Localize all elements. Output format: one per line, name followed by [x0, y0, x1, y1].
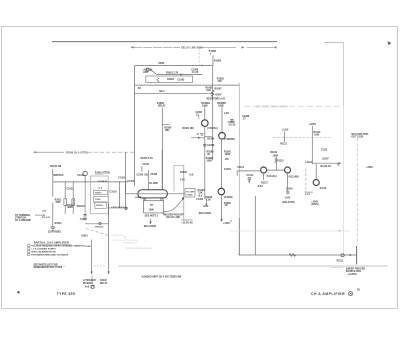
svg-text:C1050: C1050 — [127, 181, 134, 183]
svg-text:RESISTORS A+B: RESISTORS A+B — [207, 98, 226, 101]
svg-text:DELAY: DELAY — [158, 105, 166, 108]
svg-text:C1051: C1051 — [143, 164, 150, 166]
svg-text:C1090: C1090 — [150, 173, 158, 176]
svg-text:R1084 18K: R1084 18K — [182, 127, 194, 130]
svg-text:820K: 820K — [159, 62, 165, 65]
svg-text:V1119: V1119 — [320, 187, 327, 190]
svg-text:CHECKED: CHECKED — [112, 240, 122, 242]
svg-text:C1116: C1116 — [286, 188, 293, 191]
svg-text:13K: 13K — [198, 192, 203, 195]
svg-text:C1091: C1091 — [224, 168, 232, 171]
svg-text:18K: 18K — [165, 129, 170, 132]
svg-text:100K: 100K — [273, 154, 279, 157]
svg-text:C1021: C1021 — [118, 178, 125, 180]
svg-text:R1113: R1113 — [277, 160, 284, 163]
svg-text:SCANNED TEK: SCANNED TEK — [123, 242, 138, 245]
svg-text:-8.6V: -8.6V — [257, 185, 263, 188]
svg-text:1.5K: 1.5K — [224, 113, 229, 115]
svg-text:470K: 470K — [55, 201, 61, 204]
svg-text:R1109: R1109 — [270, 151, 278, 154]
svg-text:(DCPL): (DCPL) — [311, 204, 319, 206]
svg-text:SW1010: SW1010 — [95, 226, 104, 228]
svg-text:L1110: L1110 — [282, 128, 289, 131]
svg-text:680K: 680K — [67, 206, 73, 209]
svg-text:+12.6V AC: +12.6V AC — [181, 221, 193, 224]
svg-text:+100V: +100V — [215, 94, 222, 97]
svg-text:-8.6V: -8.6V — [285, 196, 291, 199]
svg-text:1K: 1K — [225, 204, 228, 207]
svg-text:R1010 1M: R1010 1M — [50, 165, 61, 168]
svg-text:GANGED WITH CH A VOLTS/DIV SW: GANGED WITH CH A VOLTS/DIV SW — [142, 276, 182, 279]
svg-text:+1.2: +1.2 — [98, 187, 103, 189]
svg-text:A+B: A+B — [85, 286, 90, 289]
svg-text:SEMICONDUCTOR TYPES: SEMICONDUCTOR TYPES — [34, 267, 63, 269]
svg-text:C1010: C1010 — [77, 174, 85, 177]
svg-text:A TRIGGER: A TRIGGER — [83, 279, 96, 282]
svg-text:R1088: R1088 — [207, 138, 215, 141]
svg-text:SEE SWEEP GEN DIAGRAM: SEE SWEEP GEN DIAGRAM — [256, 105, 288, 108]
svg-text:+0.6: +0.6 — [189, 175, 194, 177]
svg-text:C1113: C1113 — [321, 149, 328, 151]
svg-text:R1121: R1121 — [337, 260, 344, 262]
svg-text:C1019: C1019 — [110, 190, 118, 193]
svg-text:+150V: +150V — [366, 166, 373, 169]
svg-text:DL1090: DL1090 — [149, 182, 158, 185]
svg-text:CH A AMPLIFIER: CH A AMPLIFIER — [311, 292, 345, 296]
svg-text:100K: 100K — [85, 246, 91, 248]
svg-text:C1088: C1088 — [207, 144, 215, 147]
svg-text:C1050 .001: C1050 .001 — [136, 174, 149, 176]
svg-text:AC: AC — [60, 174, 64, 177]
svg-text:L1119: L1119 — [305, 161, 312, 164]
svg-text:4.5-25: 4.5-25 — [228, 124, 235, 127]
svg-text:V1090: V1090 — [186, 194, 193, 196]
svg-text:||||: |||| — [124, 236, 127, 239]
svg-text:V: V — [197, 132, 199, 136]
svg-text:TYPE 555: TYPE 555 — [57, 292, 76, 296]
svg-text:(+GATE): (+GATE) — [348, 273, 357, 276]
svg-text:RT 4.7K: RT 4.7K — [42, 216, 51, 219]
svg-text:1090: 1090 — [149, 209, 155, 212]
svg-text:1K: 1K — [207, 153, 210, 156]
svg-text:(DELAYED): (DELAYED) — [282, 201, 295, 204]
svg-text:TO TERMINAL: TO TERMINAL — [15, 214, 31, 217]
svg-text:CLEANED BY: CLEANED BY — [111, 234, 124, 237]
svg-text:R1081 2.7K: R1081 2.7K — [166, 72, 179, 74]
svg-text:R1082: R1082 — [167, 79, 174, 81]
svg-text:R1112: R1112 — [280, 142, 287, 145]
svg-text:PARTIAL CH A AMPLIFIER: PARTIAL CH A AMPLIFIER — [34, 240, 69, 244]
svg-text:C1082: C1082 — [178, 80, 185, 82]
svg-text:R1116 1K: R1116 1K — [321, 165, 332, 168]
svg-text:VOLTAGE READINGS WERE OBTAINED: VOLTAGE READINGS WERE OBTAINED UNDER NO — [31, 244, 85, 247]
svg-text:PICKOFF: PICKOFF — [83, 283, 94, 285]
svg-text:FROM CH A ATTEN: FROM CH A ATTEN — [66, 151, 88, 154]
svg-text:(V1084A): (V1084A) — [207, 127, 217, 130]
svg-text:NE-2: NE-2 — [159, 91, 165, 93]
svg-text:4.5-25: 4.5-25 — [192, 71, 199, 74]
svg-text:SEE PARTS LIST FOR: SEE PARTS LIST FOR — [34, 263, 58, 266]
svg-text:TP: TP — [150, 204, 153, 207]
svg-text:(CATHODE): (CATHODE) — [48, 231, 61, 234]
svg-text:DELAYED TRIG: DELAYED TRIG — [352, 133, 369, 136]
svg-text:R1011: R1011 — [55, 199, 63, 202]
svg-text:TYPE 555 OSCILLOSCOPE: TYPE 555 OSCILLOSCOPE — [126, 248, 153, 250]
svg-text:TO CRT: TO CRT — [186, 192, 195, 194]
svg-text:SEE NOTE 3: SEE NOTE 3 — [145, 216, 159, 218]
svg-text:R1013A: R1013A — [77, 205, 86, 208]
svg-text:100K: 100K — [225, 153, 231, 156]
svg-text:+225V: +225V — [309, 123, 316, 126]
svg-text:FOR WAVEFORMS AND VOLTAGES: FOR WAVEFORMS AND VOLTAGES — [31, 253, 69, 256]
svg-text:C1014 47: C1014 47 — [98, 180, 108, 183]
svg-text:47K: 47K — [225, 158, 230, 161]
svg-text:+100V: +100V — [223, 222, 230, 225]
svg-text:C1016: C1016 — [80, 218, 88, 221]
svg-text:8.2K: 8.2K — [206, 90, 211, 92]
svg-text:RELAY: RELAY — [100, 282, 108, 285]
svg-text:+XX: +XX — [42, 211, 47, 213]
svg-text:WITH CALIBRATOR ON: WITH CALIBRATOR ON — [31, 250, 56, 253]
svg-text:(DELAYED): (DELAYED) — [144, 225, 157, 228]
svg-text:C1112: C1112 — [237, 166, 244, 169]
svg-text:S1040: S1040 — [100, 279, 107, 282]
svg-text:P1086: P1086 — [157, 102, 165, 105]
svg-text:6.9K: 6.9K — [314, 134, 319, 137]
svg-text:105K: 105K — [207, 161, 213, 163]
svg-text:+150V: +150V — [311, 200, 318, 203]
svg-text:C1092: C1092 — [196, 199, 203, 201]
svg-text:R1017: R1017 — [95, 193, 102, 195]
svg-text:+225V: +225V — [322, 158, 329, 161]
svg-text:X100: X100 — [95, 199, 101, 201]
svg-text:+5.6: +5.6 — [198, 196, 203, 198]
svg-text:R1087: R1087 — [215, 88, 223, 91]
svg-text:-8.6V: -8.6V — [203, 205, 209, 208]
svg-text:4.7K: 4.7K — [180, 179, 185, 182]
svg-text:R1012: R1012 — [55, 222, 63, 225]
svg-text:(V1114A): (V1114A) — [267, 175, 277, 178]
svg-text:100K: 100K — [218, 104, 224, 107]
svg-text:DELAY LINE: DELAY LINE — [167, 216, 181, 219]
svg-text:R1085: R1085 — [214, 60, 222, 63]
svg-text:CH A PREAMP: CH A PREAMP — [15, 219, 31, 222]
svg-text:C1114: C1114 — [247, 174, 254, 177]
svg-text:(DELAYED): (DELAYED) — [199, 212, 212, 215]
svg-text:(C1099): (C1099) — [224, 196, 233, 199]
svg-text:OUT J1135: OUT J1135 — [352, 136, 364, 138]
svg-text:(V1114B): (V1114B) — [289, 176, 299, 179]
svg-text:R1117: R1117 — [261, 182, 268, 185]
svg-text:L-4.7: L-4.7 — [305, 193, 311, 196]
svg-text:(V1084B): (V1084B) — [224, 138, 234, 141]
svg-text:R1050 4.7K: R1050 4.7K — [141, 157, 154, 160]
svg-text:(1090): (1090) — [135, 197, 142, 199]
svg-text:R1096: R1096 — [180, 172, 187, 174]
svg-text:R1018: R1018 — [96, 205, 103, 207]
svg-text:+ 1 K LOADING SUFFIX: + 1 K LOADING SUFFIX — [31, 247, 56, 250]
svg-text:27K: 27K — [218, 80, 223, 83]
svg-text:S1010: S1010 — [81, 235, 88, 237]
